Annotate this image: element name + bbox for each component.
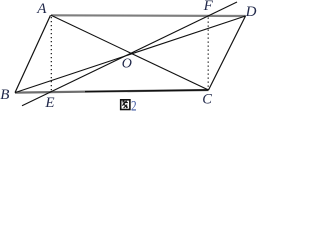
svg-text:D: D	[245, 4, 257, 20]
svg-text:C: C	[202, 91, 212, 107]
svg-text:B: B	[0, 87, 9, 103]
svg-text:2: 2	[131, 99, 137, 113]
svg-text:F: F	[203, 0, 214, 14]
svg-text:E: E	[44, 95, 54, 111]
svg-text:A: A	[36, 1, 47, 17]
svg-text:O: O	[122, 56, 132, 71]
